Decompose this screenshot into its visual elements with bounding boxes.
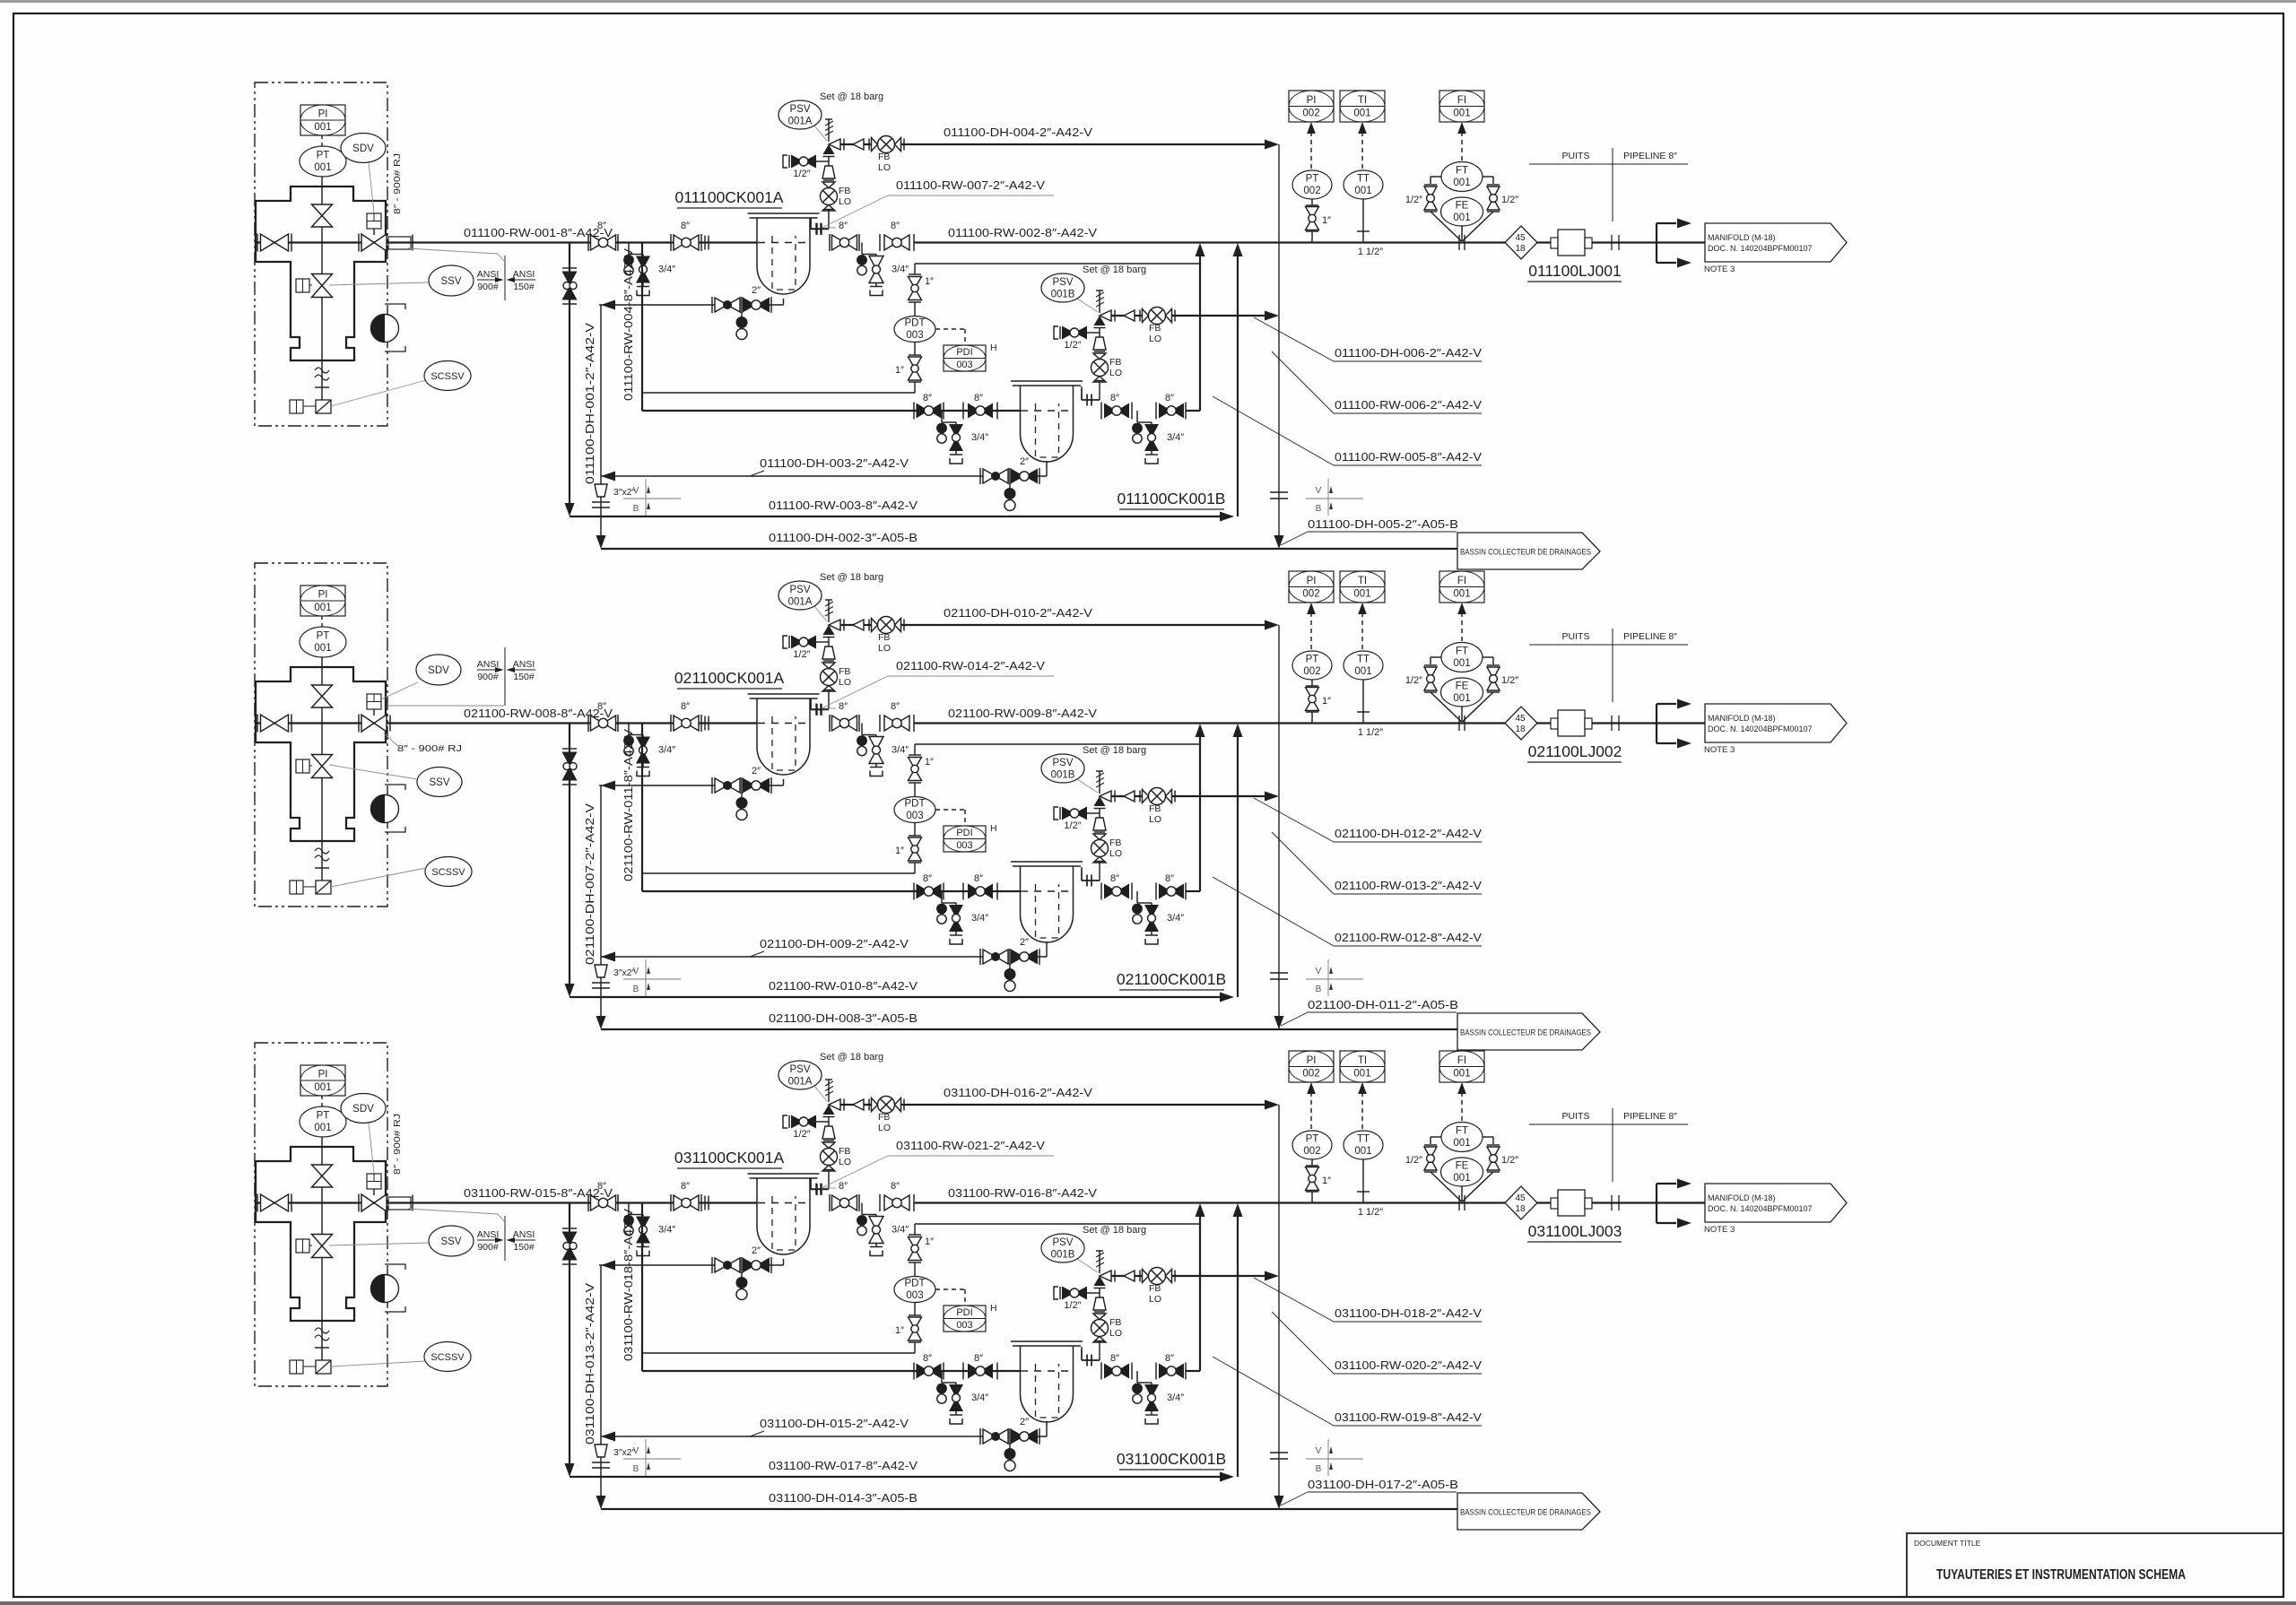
svg-text:011100-RW-002-8″-A42-V: 011100-RW-002-8″-A42-V	[948, 226, 1097, 239]
svg-text:MANIFOLD (M-18): MANIFOLD (M-18)	[1708, 714, 1776, 723]
svg-text:LO: LO	[1149, 1294, 1161, 1305]
svg-text:3/4″: 3/4″	[891, 1225, 909, 1236]
svg-text:001: 001	[1453, 1138, 1470, 1149]
8in valve A4 021100	[879, 715, 881, 732]
riser to main 031100	[1237, 1214, 1239, 1477]
instrument PI 001 011100	[300, 105, 345, 135]
svg-text:3/4″: 3/4″	[891, 745, 909, 756]
svg-text:002: 002	[1303, 666, 1320, 677]
instrument TI 001 031100	[1340, 1051, 1385, 1082]
svg-text:011100-DH-006-2″-A42-V: 011100-DH-006-2″-A42-V	[1335, 346, 1482, 360]
svg-text:1″: 1″	[1322, 215, 1331, 226]
svg-text:001: 001	[1453, 658, 1470, 669]
svg-text:BASSIN COLLECTEUR DE DRAINAGES: BASSIN COLLECTEUR DE DRAINAGES	[1460, 1028, 1591, 1038]
svg-text:V: V	[1316, 967, 1322, 976]
8in valve B4 021100	[1155, 883, 1157, 900]
tree upper gate valve 021100	[321, 667, 323, 685]
svg-text:LO: LO	[839, 1157, 851, 1167]
svg-text:FB: FB	[1149, 323, 1161, 334]
svg-text:001: 001	[1354, 666, 1371, 677]
svg-text:1/2″: 1/2″	[1064, 820, 1081, 831]
PSV 001B assembly 021100	[1111, 795, 1266, 797]
svg-text:031100-RW-019-8″-A42-V: 031100-RW-019-8″-A42-V	[1335, 1410, 1482, 1424]
instrument TI 001 021100	[1340, 571, 1385, 603]
svg-text:8″: 8″	[923, 1353, 932, 1364]
bleed B-left 021100	[941, 891, 943, 903]
filter A 2in drain 021100	[783, 779, 785, 785]
svg-text:8″: 8″	[597, 701, 606, 712]
svg-text:1/2″: 1/2″	[1064, 1300, 1081, 1311]
drain collector flag 011100	[1457, 533, 1600, 569]
SDV callout 011100	[341, 134, 386, 163]
svg-text:PSV: PSV	[789, 104, 810, 115]
wellhead boundary box 011100	[255, 82, 387, 426]
svg-text:1/2″: 1/2″	[1501, 675, 1518, 686]
manifold flag 011100	[1705, 223, 1847, 262]
filter A 2in drain 011100	[783, 299, 785, 305]
riser to main 021100	[1237, 734, 1239, 997]
pig launcher 031100LJ003 031100	[1551, 1198, 1558, 1209]
svg-text:FT: FT	[1456, 1126, 1468, 1137]
svg-text:1″: 1″	[925, 276, 934, 287]
svg-text:021100-DH-012-2″-A42-V: 021100-DH-012-2″-A42-V	[1335, 827, 1482, 840]
pipe 021100-DH-008 021100	[601, 1028, 1457, 1030]
svg-text:PT: PT	[1306, 174, 1319, 185]
svg-text:8″: 8″	[974, 873, 983, 884]
svg-text:LO: LO	[839, 677, 851, 688]
svg-text:031100-DH-017-2″-A05-B: 031100-DH-017-2″-A05-B	[1308, 1478, 1458, 1491]
svg-text:PT: PT	[1306, 655, 1319, 665]
svg-text:1″: 1″	[1322, 696, 1331, 707]
svg-text:8″: 8″	[891, 701, 900, 712]
manifold flag 031100	[1705, 1184, 1847, 1222]
svg-text:1/2″: 1/2″	[793, 1129, 810, 1140]
svg-text:001A: 001A	[788, 117, 813, 127]
SDV callout 031100	[341, 1094, 386, 1123]
svg-text:8″: 8″	[681, 221, 690, 231]
spool 8in 900 RJ 031100	[388, 1197, 411, 1210]
svg-text:SCSSV: SCSSV	[431, 867, 465, 878]
pipe 031100-DH-014 031100	[601, 1508, 1457, 1510]
svg-text:8″: 8″	[974, 393, 983, 403]
svg-text:001: 001	[1453, 213, 1470, 223]
svg-text:011100-DH-001-2″-A42-V: 011100-DH-001-2″-A42-V	[583, 323, 596, 484]
svg-text:ANSI: ANSI	[513, 1229, 535, 1240]
bleed A-right 021100	[861, 724, 863, 735]
downhole break 031100	[315, 1328, 329, 1333]
pipe 011100-DH-002 011100	[601, 548, 1457, 550]
reducer 3x2 021100	[595, 965, 607, 977]
SDV callout 021100	[416, 655, 461, 685]
svg-text:003: 003	[906, 1290, 923, 1301]
svg-text:001: 001	[1354, 186, 1371, 196]
svg-text:LO: LO	[1109, 368, 1122, 378]
filter vessel 011100CK001B 011100	[1011, 380, 1083, 382]
wellhead boundary box 031100	[255, 1043, 387, 1386]
svg-text:1″: 1″	[925, 1236, 934, 1247]
svg-text:FB: FB	[878, 1112, 890, 1123]
line break 011100	[1611, 235, 1613, 250]
svg-text:001: 001	[1353, 589, 1370, 600]
svg-text:PI: PI	[1307, 95, 1317, 106]
filter B 2in drain 011100	[1046, 461, 1048, 476]
svg-text:8″: 8″	[923, 393, 932, 403]
spec diamond 45-18 011100	[1505, 226, 1537, 259]
svg-text:PDT: PDT	[905, 318, 926, 329]
downhole break 011100	[315, 368, 329, 373]
svg-text:V: V	[633, 486, 639, 496]
pipe 031100-RW-017 031100	[570, 1476, 1221, 1478]
svg-text:FB: FB	[878, 632, 890, 643]
svg-text:150#: 150#	[513, 1242, 535, 1253]
bleed A-right 031100	[861, 1203, 863, 1215]
svg-text:1″: 1″	[895, 1325, 904, 1336]
svg-text:1/2″: 1/2″	[793, 169, 810, 179]
svg-text:PI: PI	[1307, 576, 1317, 586]
svg-text:001A: 001A	[788, 597, 813, 608]
drain collector flag 021100	[1457, 1013, 1600, 1050]
svg-text:PT: PT	[317, 151, 330, 161]
svg-text:8″: 8″	[839, 221, 848, 231]
title block	[1907, 1533, 2283, 1597]
svg-text:DOCUMENT TITLE: DOCUMENT TITLE	[1914, 1539, 1981, 1548]
instrument FI 001 011100	[1439, 91, 1484, 122]
8in valve B4 031100	[1155, 1363, 1157, 1380]
svg-text:TT: TT	[1357, 174, 1370, 185]
pipe 011100-RW-005 riser 011100	[1186, 410, 1200, 412]
pipe 031100-RW-018 branch 031100	[641, 1203, 643, 1372]
filter vessel 031100CK001B 031100	[1011, 1340, 1083, 1342]
filter A 2in drain 031100	[783, 1259, 785, 1265]
svg-text:PSV: PSV	[1052, 1237, 1073, 1248]
drain header vertical 031100	[600, 1265, 602, 1497]
instrument PI 002 031100	[1289, 1051, 1334, 1082]
svg-text:8″: 8″	[1165, 393, 1174, 403]
svg-text:001: 001	[1453, 108, 1470, 119]
svg-text:3/4″: 3/4″	[1167, 913, 1184, 924]
instrument PDT 003 031100	[894, 1277, 935, 1303]
svg-text:1 1/2″: 1 1/2″	[1358, 1207, 1383, 1218]
svg-text:021100-RW-014-2″-A42-V: 021100-RW-014-2″-A42-V	[896, 659, 1045, 672]
svg-text:8″: 8″	[839, 701, 848, 712]
choke 031100	[371, 1275, 399, 1303]
svg-text:PDI: PDI	[956, 1307, 972, 1318]
svg-text:001: 001	[1453, 178, 1470, 188]
vessel B top 2in connection 031100	[1081, 1347, 1083, 1360]
svg-text:2″: 2″	[1020, 1417, 1029, 1427]
PSV 001B assembly 011100	[1111, 315, 1266, 317]
svg-text:FB: FB	[1149, 1283, 1161, 1294]
svg-text:H: H	[990, 343, 997, 353]
svg-text:8″: 8″	[891, 221, 900, 231]
svg-text:1″: 1″	[925, 757, 934, 768]
svg-text:3/4″: 3/4″	[1167, 432, 1184, 443]
svg-text:003: 003	[956, 840, 972, 851]
SCSSV callout 031100	[331, 1361, 426, 1366]
pipe 021100-RW-011 branch 021100	[641, 724, 643, 892]
pipe 021100-RW-010 021100	[570, 996, 1221, 998]
pipe 021100-RW-012 riser 021100	[1186, 890, 1200, 892]
valve on drain 021100	[562, 748, 577, 750]
svg-text:SSV: SSV	[440, 1236, 461, 1247]
svg-text:8″: 8″	[974, 1353, 983, 1364]
svg-text:B: B	[633, 1464, 639, 1474]
svg-text:001: 001	[314, 1123, 331, 1133]
filter B 2in drain 021100	[1046, 941, 1048, 957]
svg-text:PUITS: PUITS	[1562, 631, 1590, 642]
SSV callout 021100	[417, 768, 462, 797]
svg-text:PSV: PSV	[789, 585, 810, 595]
svg-text:021100-DH-008-3″-A05-B: 021100-DH-008-3″-A05-B	[769, 1011, 918, 1025]
SSV callout 011100	[429, 265, 474, 296]
svg-text:8″: 8″	[839, 1181, 848, 1192]
SDV valve 031100	[358, 1194, 360, 1212]
svg-text:011100-RW-005-8″-A42-V: 011100-RW-005-8″-A42-V	[1335, 450, 1482, 464]
svg-text:V: V	[1316, 1446, 1322, 1456]
svg-text:001: 001	[314, 162, 331, 173]
svg-text:LO: LO	[839, 196, 851, 207]
8in valve B3 011100	[1100, 403, 1102, 420]
8in valve B1 031100	[913, 1363, 915, 1380]
wing valve left 031100	[256, 1202, 413, 1203]
svg-text:SDV: SDV	[428, 665, 449, 676]
svg-text:PUITS: PUITS	[1562, 1111, 1590, 1122]
svg-text:900#: 900#	[477, 672, 499, 682]
svg-text:2″: 2″	[1020, 456, 1029, 467]
8in valve B2 021100	[962, 883, 964, 900]
reducer 3x2 011100	[595, 484, 607, 497]
svg-text:001: 001	[1453, 589, 1470, 600]
wing valve left 021100	[256, 722, 413, 724]
svg-text:3/4″: 3/4″	[658, 745, 675, 756]
svg-text:031100LJ003: 031100LJ003	[1528, 1222, 1622, 1240]
relief header 031100-DH-017 031100	[1278, 1105, 1280, 1497]
bleed B-right 021100	[1136, 891, 1138, 903]
svg-text:FE: FE	[1456, 1161, 1469, 1172]
svg-text:3/4″: 3/4″	[658, 1225, 675, 1236]
SSV valve 011100	[312, 274, 333, 286]
8in valve A3 031100	[829, 1194, 831, 1211]
pipe 021100-RW-014 vessel A top 021100	[810, 698, 812, 710]
svg-text:PIPELINE 8″: PIPELINE 8″	[1623, 1111, 1677, 1122]
PSV 001A assembly 021100	[840, 624, 1266, 626]
instrument PDT 003 021100	[894, 797, 935, 823]
svg-text:PDT: PDT	[905, 799, 926, 810]
V-B symbol right 021100	[1306, 978, 1363, 980]
svg-text:003: 003	[956, 1320, 972, 1331]
svg-text:002: 002	[1302, 589, 1319, 600]
bleed A-left 021100	[628, 724, 630, 735]
svg-text:FI: FI	[1457, 95, 1466, 106]
SSV valve 031100	[312, 1235, 333, 1246]
svg-text:021100-RW-011-8″-A42-V: 021100-RW-011-8″-A42-V	[622, 729, 635, 881]
manifold flag 021100	[1705, 704, 1847, 742]
svg-text:45: 45	[1515, 714, 1526, 724]
svg-text:031100-RW-021-2″-A42-V: 031100-RW-021-2″-A42-V	[896, 1139, 1045, 1152]
svg-text:FI: FI	[1457, 576, 1466, 586]
svg-text:001: 001	[1353, 108, 1370, 119]
svg-text:031100-DH-013-2″-A42-V: 031100-DH-013-2″-A42-V	[583, 1283, 596, 1444]
svg-text:001: 001	[314, 603, 331, 613]
flow element FE 001 031100	[1431, 1172, 1462, 1202]
bleed B-left 031100	[941, 1371, 943, 1383]
filter B 2in drain 031100	[1046, 1421, 1048, 1436]
svg-text:1/2″: 1/2″	[1064, 340, 1081, 351]
svg-text:LO: LO	[1149, 814, 1161, 825]
wellhead boundary box 021100	[255, 563, 387, 907]
svg-text:021100-DH-007-2″-A42-V: 021100-DH-007-2″-A42-V	[583, 803, 596, 965]
choke 011100	[371, 315, 399, 343]
wing valve left 011100	[256, 241, 413, 243]
riser to main 011100	[1237, 254, 1239, 516]
svg-text:Set @ 18 barg: Set @ 18 barg	[820, 1052, 883, 1063]
manifold branch arrows 021100	[1656, 704, 1657, 743]
svg-text:FT: FT	[1456, 166, 1468, 177]
svg-text:1 1/2″: 1 1/2″	[1358, 247, 1383, 257]
svg-text:8″: 8″	[597, 221, 606, 231]
svg-text:PT: PT	[317, 1111, 330, 1122]
8in valve B1 011100	[913, 403, 915, 420]
svg-text:2″: 2″	[1020, 937, 1029, 948]
svg-text:PI: PI	[318, 590, 328, 601]
8in valve A1 031100	[587, 1194, 589, 1211]
svg-text:002: 002	[1302, 1069, 1319, 1080]
svg-text:001A: 001A	[788, 1077, 813, 1088]
svg-text:021100-DH-011-2″-A05-B: 021100-DH-011-2″-A05-B	[1308, 998, 1458, 1011]
svg-text:8″ - 900# RJ: 8″ - 900# RJ	[392, 153, 403, 214]
svg-text:003: 003	[906, 811, 923, 821]
svg-text:LO: LO	[1109, 848, 1122, 859]
relief header 021100-DH-011 021100	[1278, 625, 1280, 1017]
8in valve B2 031100	[962, 1363, 964, 1380]
svg-text:PDI: PDI	[956, 347, 972, 358]
svg-text:NOTE 3: NOTE 3	[1704, 1225, 1735, 1235]
svg-text:011100-DH-005-2″-A05-B: 011100-DH-005-2″-A05-B	[1308, 517, 1458, 531]
spec diamond 45-18 031100	[1505, 1186, 1537, 1219]
svg-text:SSV: SSV	[429, 777, 449, 788]
svg-text:B: B	[633, 504, 639, 514]
PDT 003 loop 021100	[914, 863, 916, 873]
manifold branch arrows 011100	[1656, 223, 1657, 263]
svg-text:031100-RW-020-2″-A42-V: 031100-RW-020-2″-A42-V	[1335, 1358, 1482, 1372]
svg-text:Set @ 18 barg: Set @ 18 barg	[820, 572, 883, 583]
svg-text:V: V	[633, 967, 639, 976]
svg-text:DOC. N. 140204BPFM00107: DOC. N. 140204BPFM00107	[1708, 1204, 1813, 1213]
svg-text:V: V	[1316, 486, 1322, 496]
svg-text:SDV: SDV	[352, 143, 374, 154]
relief header 011100-DH-005 011100	[1278, 144, 1280, 536]
svg-text:FB: FB	[839, 666, 850, 677]
choke 021100	[371, 795, 399, 823]
svg-text:150#: 150#	[513, 282, 535, 292]
svg-text:V: V	[633, 1446, 639, 1456]
svg-text:2″: 2″	[752, 285, 761, 296]
instrument TT 001 031100	[1344, 1131, 1383, 1159]
pipe 021100-RW-009 021100	[914, 722, 1705, 724]
svg-text:011100-RW-003-8″-A42-V: 011100-RW-003-8″-A42-V	[769, 499, 918, 512]
svg-text:031100-DH-016-2″-A42-V: 031100-DH-016-2″-A42-V	[944, 1086, 1092, 1099]
SCSSV valve 011100	[316, 400, 331, 413]
svg-text:PDT: PDT	[905, 1279, 926, 1289]
svg-text:021100-RW-009-8″-A42-V: 021100-RW-009-8″-A42-V	[948, 707, 1097, 720]
svg-text:021100LJ002: 021100LJ002	[1528, 742, 1622, 760]
drain header vertical 021100	[600, 785, 602, 1017]
svg-text:8″: 8″	[1165, 1353, 1174, 1364]
svg-text:001B: 001B	[1051, 770, 1075, 781]
flow element FE 001 011100	[1431, 212, 1462, 241]
svg-text:FI: FI	[1457, 1055, 1466, 1066]
instrument PDT 003 011100	[894, 317, 935, 343]
svg-text:002: 002	[1303, 1146, 1320, 1157]
svg-text:PI: PI	[318, 1070, 328, 1080]
pipe 021100-RW-008 021100	[413, 722, 757, 724]
svg-text:001: 001	[314, 122, 331, 133]
svg-text:FT: FT	[1456, 646, 1468, 657]
manifold branch arrows 031100	[1656, 1184, 1657, 1223]
svg-text:1″: 1″	[895, 365, 904, 376]
svg-text:021100-RW-013-2″-A42-V: 021100-RW-013-2″-A42-V	[1335, 879, 1482, 892]
svg-text:ANSI: ANSI	[513, 269, 535, 280]
instrument FI 001 031100	[1439, 1051, 1484, 1082]
svg-text:003: 003	[906, 330, 923, 341]
svg-text:PIPELINE 8″: PIPELINE 8″	[1623, 151, 1677, 161]
V-B symbol left 011100	[623, 498, 681, 499]
svg-text:011100-RW-004-8″-A42-V: 011100-RW-004-8″-A42-V	[622, 248, 635, 401]
instrument TI 001 011100	[1340, 91, 1385, 122]
valve on drain 011100	[562, 267, 577, 269]
tree upper gate valve 031100	[321, 1147, 323, 1165]
pipe 031100-RW-019 riser 031100	[1186, 1370, 1200, 1372]
PDT high tap line 031100	[642, 1352, 915, 1354]
svg-text:011100-DH-002-3″-A05-B: 011100-DH-002-3″-A05-B	[769, 531, 918, 544]
filter vessel 021100CK001A 021100	[748, 693, 820, 695]
V-B symbol left 021100	[623, 978, 681, 980]
svg-text:8″: 8″	[1165, 873, 1174, 884]
svg-text:18: 18	[1515, 1204, 1526, 1214]
svg-text:011100-DH-004-2″-A42-V: 011100-DH-004-2″-A42-V	[944, 126, 1092, 139]
SDV valve 011100	[358, 234, 360, 252]
8in valve B3 021100	[1100, 883, 1102, 900]
svg-text:001: 001	[1353, 1069, 1370, 1080]
svg-text:LO: LO	[1149, 334, 1161, 344]
svg-text:031100-RW-018-8″-A42-V: 031100-RW-018-8″-A42-V	[622, 1209, 635, 1361]
svg-text:Set @ 18 barg: Set @ 18 barg	[1083, 265, 1146, 275]
svg-text:FE: FE	[1456, 681, 1469, 692]
8in valve A3 011100	[829, 234, 831, 251]
svg-text:B: B	[1316, 1464, 1322, 1474]
8in valve A4 031100	[879, 1194, 881, 1211]
svg-text:FB: FB	[878, 152, 890, 162]
reducer 3x2 031100	[595, 1444, 607, 1457]
svg-text:FB: FB	[1149, 803, 1161, 814]
svg-text:031100-DH-015-2″-A42-V: 031100-DH-015-2″-A42-V	[760, 1417, 909, 1430]
PDT 003 loop 011100	[914, 382, 916, 393]
svg-text:MANIFOLD (M-18): MANIFOLD (M-18)	[1708, 1193, 1776, 1202]
svg-text:8″: 8″	[1110, 393, 1119, 403]
svg-text:8″ - 900# RJ: 8″ - 900# RJ	[392, 1114, 403, 1175]
svg-text:021100-DH-009-2″-A42-V: 021100-DH-009-2″-A42-V	[760, 937, 909, 950]
drain header vertical 011100	[600, 305, 602, 536]
bleed A-right 011100	[861, 243, 863, 255]
PDT high tap line 021100	[642, 872, 915, 874]
svg-text:031100-RW-016-8″-A42-V: 031100-RW-016-8″-A42-V	[948, 1186, 1097, 1200]
svg-text:8″ - 900# RJ: 8″ - 900# RJ	[397, 743, 462, 754]
svg-text:021100-RW-012-8″-A42-V: 021100-RW-012-8″-A42-V	[1335, 931, 1482, 944]
drain collector flag 031100	[1457, 1493, 1600, 1530]
instrument PI 001 031100	[300, 1065, 345, 1096]
bleed A-left 011100	[628, 243, 630, 255]
svg-text:021100-DH-010-2″-A42-V: 021100-DH-010-2″-A42-V	[944, 606, 1092, 620]
